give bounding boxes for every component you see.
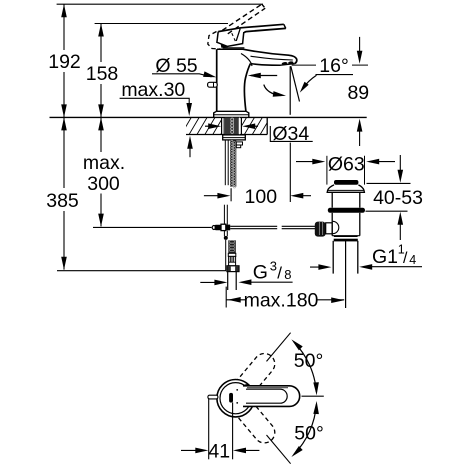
plan dots [236, 389, 238, 404]
max30 leader arrow [120, 98, 192, 116]
max300 reference line [93, 226, 212, 228]
drain tailpipe [333, 241, 358, 274]
16deg underline [316, 74, 354, 76]
svg-text:41: 41 [208, 441, 230, 463]
svg-text:100: 100 [245, 186, 278, 208]
stream line 16deg [291, 66, 300, 101]
dimension line 158/max300 vertical [98, 24, 104, 227]
drain body upper [332, 192, 360, 208]
svg-text:300: 300 [87, 173, 120, 195]
drain flange [327, 185, 364, 192]
dim max.180 [226, 287, 344, 308]
aerator [282, 61, 294, 65]
dim extension line top (192 ref) [57, 3, 263, 5]
drain body lower [332, 213, 360, 236]
385 reference line [57, 270, 226, 272]
svg-text:50°: 50° [294, 350, 324, 372]
deck hatching [180, 116, 287, 137]
dim 100 [204, 188, 311, 201]
lever junction box [221, 224, 230, 230]
faucet base [214, 111, 249, 117]
drain o-ring [328, 208, 365, 213]
label G3/8 [253, 259, 292, 284]
G1-1/4 arrows [310, 264, 422, 270]
pop-up rod lower [224, 205, 227, 225]
O63 arrows [296, 159, 395, 165]
rod below box [224, 231, 228, 271]
drain lever knob [315, 222, 326, 237]
faucet lever handle [218, 24, 286, 32]
pop-up rod (behind hose) [225, 140, 228, 185]
dim 41 [181, 399, 259, 459]
O34 arrows [205, 123, 258, 129]
50deg extension line lower [267, 435, 291, 464]
svg-text:Ø63: Ø63 [328, 153, 365, 175]
dim extension line (158 ref) [95, 23, 228, 25]
aerator reference line [292, 64, 316, 66]
svg-text:50°: 50° [294, 423, 324, 445]
16deg leader arrow [300, 75, 317, 92]
plan centerline right [302, 395, 324, 397]
svg-text:max.: max. [83, 152, 125, 174]
handle pivot wedge [221, 43, 228, 48]
svg-text:385: 385 [46, 190, 79, 212]
dimension line 192/385 vertical [61, 4, 67, 270]
plan dashed handle lower (50deg) [235, 401, 279, 447]
svg-text:max.180: max.180 [244, 289, 319, 311]
drain center rod [345, 241, 347, 308]
extension line x290 [289, 143, 291, 202]
stream line vertical [289, 66, 291, 115]
svg-text:max.30: max.30 [121, 79, 185, 101]
O34 label bracket [270, 126, 312, 141]
G3/8 arrows [200, 279, 292, 285]
50deg extension line upper [267, 333, 291, 362]
locknut [223, 135, 246, 140]
dim 89 [357, 37, 363, 146]
svg-text:192: 192 [48, 51, 81, 73]
svg-text:Ø34: Ø34 [272, 123, 309, 145]
angle arc upper [291, 339, 319, 395]
drain plug cap [334, 180, 358, 185]
pop-up rod knob (rear) [208, 82, 218, 87]
faucet head (cartridge housing) [217, 29, 245, 48]
drain coupling [334, 236, 358, 241]
lever ball end [212, 226, 215, 230]
svg-text:89: 89 [347, 82, 369, 104]
svg-text:G: G [253, 262, 268, 284]
max30 lower arrow [187, 136, 193, 158]
svg-text:/: / [277, 264, 282, 283]
dashed lever raised [222, 4, 265, 34]
G3/8 hose end fitting [227, 240, 239, 290]
faucet spout [241, 49, 297, 66]
svg-text:40-53: 40-53 [373, 187, 423, 209]
plan pop-up rod stub [208, 395, 218, 399]
plan circle overlap arc [243, 385, 249, 386]
svg-text:4: 4 [409, 253, 416, 267]
lever black bar [215, 225, 222, 230]
svg-text:8: 8 [284, 267, 291, 282]
O55 leader arrow [152, 71, 216, 77]
svg-text:3: 3 [270, 259, 277, 274]
svg-text:/: / [403, 250, 408, 267]
plan inner circle [220, 383, 251, 414]
label G1 1/4 [372, 243, 416, 269]
angle arc lower [291, 401, 319, 457]
plan solid handle [243, 386, 300, 407]
supply hose coil [230, 140, 243, 188]
faucet body [217, 49, 251, 111]
O63 extension lines [327, 156, 365, 185]
dim 40-53 [366, 155, 411, 240]
drain lever block [326, 223, 332, 234]
plan black mark [229, 393, 233, 403]
svg-text:16°: 16° [319, 55, 349, 77]
deck outline [186, 117, 267, 134]
dashed head outline [208, 32, 221, 50]
deck reference line [50, 116, 367, 118]
shank through deck [222, 118, 242, 135]
flow arc arrow [264, 85, 286, 97]
svg-text:G1: G1 [372, 246, 398, 268]
plan dashed handle upper (50deg) [235, 349, 279, 395]
plan outer circle [217, 380, 254, 417]
spout pointer arrow [248, 73, 277, 79]
svg-text:158: 158 [86, 63, 119, 85]
horizontal lever rod [230, 226, 317, 228]
